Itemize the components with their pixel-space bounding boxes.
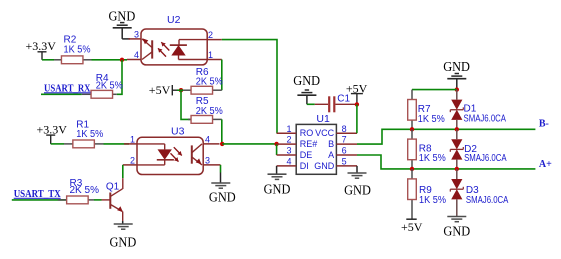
label D1 value	[464, 104, 507, 125]
wire ground to C1	[307, 103, 328, 105]
power +5V (above U1)	[346, 81, 368, 104]
TVS diode D1	[450, 90, 463, 130]
U1 pin 3 stub	[277, 146, 297, 156]
capacitor C1	[329, 93, 350, 112]
svg-text:B: B	[328, 139, 334, 149]
wire node A down to R4	[117, 60, 122, 95]
U1 pin 4 stub	[277, 157, 297, 167]
transistor Q1 (NPN)	[102, 181, 123, 212]
ground under Q1	[110, 221, 137, 250]
node C junction at U1.2	[274, 142, 278, 146]
ground under U1 pin 4 (DI)	[264, 166, 291, 196]
node D junction C1/+5V/VCC	[355, 102, 359, 106]
wire U2.2 to U1.1 (RO)	[222, 40, 277, 134]
ground bottom right	[443, 217, 470, 239]
wire U2.1 down to R6	[221, 60, 223, 91]
resistor R6	[183, 86, 222, 94]
TVS diode D2	[450, 129, 463, 169]
svg-text:2: 2	[286, 135, 291, 145]
ground above U2 pin 3	[109, 9, 136, 39]
label R4 value	[96, 73, 123, 92]
resistor R7	[408, 90, 417, 130]
node junction D2/D3 on A+ rail	[455, 167, 459, 171]
wire USART_TX to R3	[12, 199, 68, 201]
wire +3.3V to R2	[42, 59, 54, 61]
wire U1.6 (A) to A+ rail	[357, 155, 535, 169]
label R9 value	[419, 185, 446, 206]
label R2 value	[64, 35, 91, 56]
wire R1 to U3.1	[104, 143, 130, 145]
svg-text:8: 8	[342, 124, 347, 134]
label D2 value	[464, 144, 507, 164]
wire +5V node down to R5	[181, 90, 191, 119]
node A junction R2/R4/U2.4	[120, 58, 124, 62]
U2 pin 2 stub	[207, 30, 222, 40]
U1 pin 8 stub	[336, 124, 357, 134]
svg-text:A: A	[328, 150, 334, 160]
svg-text:GND: GND	[314, 161, 335, 171]
resistor R5	[188, 116, 222, 124]
label D3 value	[466, 185, 509, 206]
svg-text:B-: B-	[539, 119, 549, 130]
U3 pin 4 stub	[203, 135, 219, 145]
svg-text:GND: GND	[443, 224, 470, 239]
svg-text:USART_RX: USART_RX	[44, 83, 91, 94]
wire node B to U1.2 (RE#)	[222, 143, 276, 145]
svg-text:RO: RO	[300, 128, 314, 138]
node junction D1/D2 on B- rail	[455, 127, 459, 131]
node junction R8/R9 on A+ rail	[410, 167, 414, 171]
svg-text:5: 5	[342, 157, 347, 167]
U2 pin 3 stub	[129, 30, 142, 40]
U1 pin 5 stub	[336, 157, 357, 167]
opto-isolator U2 box	[141, 14, 207, 65]
svg-text:3: 3	[134, 30, 139, 40]
svg-text:4: 4	[134, 50, 139, 60]
svg-text:3: 3	[286, 146, 291, 156]
svg-text:2K 5%: 2K 5%	[70, 185, 100, 196]
U1 pin 2 stub	[277, 135, 297, 145]
svg-text:RE#: RE#	[300, 139, 318, 149]
wire ground rail to R7	[412, 89, 457, 91]
svg-text:GND: GND	[109, 9, 136, 24]
U2 pin 4 stub	[127, 50, 141, 60]
ground under U3 pin 3	[209, 173, 236, 205]
ground under U1 pin 5	[344, 166, 371, 198]
U2 light arrows	[158, 42, 169, 56]
U3 phototransistor	[192, 144, 202, 165]
transceiver U1 box	[296, 113, 336, 175]
svg-text:GND: GND	[293, 73, 320, 88]
U1 inner pin names	[300, 128, 335, 171]
U3 light arrows	[171, 147, 182, 161]
node B junction U3.4/R5/RE wire	[220, 142, 224, 146]
U1 pin 7 stub	[336, 135, 357, 145]
power +3.3V (R1 row)	[37, 123, 68, 144]
svg-text:2K 5%: 2K 5%	[96, 81, 123, 92]
svg-text:1K 5%: 1K 5%	[419, 195, 446, 206]
label R1 value	[76, 119, 103, 140]
wire U3.3 to ground	[220, 165, 222, 173]
U3 pin 3 stub	[203, 155, 220, 165]
svg-text:SMAJ6.0CA: SMAJ6.0CA	[466, 195, 509, 206]
svg-text:DE: DE	[300, 150, 313, 160]
U2 phototransistor	[142, 38, 152, 59]
svg-text:4: 4	[286, 157, 291, 167]
label R8 value	[419, 143, 446, 164]
svg-text:1: 1	[208, 50, 213, 60]
svg-text:GND: GND	[344, 183, 371, 198]
node E junction GND/D1/R7 wire	[455, 87, 459, 91]
svg-text:1: 1	[130, 135, 135, 145]
wire node D down to U1.8 (VCC)	[356, 104, 358, 133]
svg-text:SMAJ6.0CA: SMAJ6.0CA	[464, 153, 507, 164]
U2 LED (cathode top)	[170, 40, 207, 60]
U3 pin 1 stub	[124, 135, 137, 145]
node +5V junction	[179, 88, 183, 92]
label R3 value	[70, 178, 100, 196]
resistor R3	[58, 196, 94, 204]
resistor R8	[408, 129, 417, 169]
resistor R1	[64, 140, 104, 148]
svg-text:GND: GND	[110, 235, 137, 250]
wire +5V node to R6	[177, 89, 183, 91]
svg-text:+3.3V: +3.3V	[37, 123, 68, 137]
wire R3 to Q1 base	[94, 199, 102, 201]
svg-text:2K 5%: 2K 5%	[196, 77, 223, 88]
power +5V (mid)	[149, 83, 177, 97]
svg-text:1K 5%: 1K 5%	[418, 114, 445, 125]
U3 LED (cathode bottom)	[137, 144, 174, 165]
TVS diode D3	[450, 169, 463, 216]
wire U3.2 down to Q1 collector	[122, 165, 124, 189]
svg-text:1: 1	[286, 124, 291, 134]
svg-text:GND: GND	[209, 190, 236, 205]
wire C1 to +5V node	[335, 103, 357, 105]
svg-text:USART_TX: USART_TX	[14, 189, 62, 200]
svg-text:VCC: VCC	[315, 128, 335, 138]
node junction R7/R8 on B- rail	[410, 127, 414, 131]
resistor R4	[82, 90, 117, 98]
svg-text:GND: GND	[264, 181, 291, 196]
power +3.3V (top left)	[26, 39, 57, 60]
resistor R9	[408, 169, 417, 219]
svg-text:2K 5%: 2K 5%	[196, 106, 223, 117]
power +5V (bottom)	[401, 219, 423, 234]
svg-text:7: 7	[342, 135, 347, 145]
U1 pin 6 stub	[336, 146, 357, 156]
label R5 value	[196, 96, 223, 117]
svg-text:+3.3V: +3.3V	[26, 39, 57, 53]
wire node C down to U1.3 (DE)	[276, 144, 278, 155]
svg-text:GND: GND	[443, 59, 470, 74]
opto-isolator U3 box	[137, 126, 203, 175]
svg-text:Q1: Q1	[106, 181, 120, 192]
svg-text:1K 5%: 1K 5%	[419, 153, 446, 164]
wire R2 to node A	[92, 59, 128, 61]
svg-text:DI: DI	[300, 161, 309, 171]
U1 pin 1 stub	[277, 124, 297, 134]
svg-text:4: 4	[205, 135, 210, 145]
wire R5 to node B (U3.4)	[221, 119, 223, 143]
wire Q1 emitter down	[122, 212, 124, 222]
wire U1.7 (B) to B- rail	[357, 129, 535, 144]
resistor R2	[54, 56, 92, 64]
label R6 value	[196, 67, 223, 88]
svg-text:U1: U1	[316, 113, 330, 125]
svg-text:A+: A+	[539, 159, 552, 170]
svg-text:+5V: +5V	[401, 220, 423, 234]
U3 pin 2 stub	[123, 155, 137, 165]
U2 pin 1 stub	[207, 50, 222, 60]
svg-text:2: 2	[130, 155, 135, 165]
svg-text:1K 5%: 1K 5%	[64, 44, 91, 55]
svg-text:1K 5%: 1K 5%	[76, 129, 103, 140]
svg-text:2: 2	[208, 30, 213, 40]
svg-text:U2: U2	[167, 14, 181, 26]
ground above U1 (C1 left)	[293, 73, 320, 104]
ground top right	[443, 59, 470, 90]
label R7 value	[418, 104, 445, 125]
svg-text:6: 6	[342, 146, 347, 156]
svg-text:3: 3	[205, 155, 210, 165]
wire +3.3V to R1	[51, 143, 64, 145]
wire USART_RX to R4	[41, 93, 82, 95]
svg-text:U3: U3	[171, 126, 185, 138]
svg-text:SMAJ6.0CA: SMAJ6.0CA	[464, 113, 507, 124]
svg-text:+5V: +5V	[149, 83, 171, 97]
